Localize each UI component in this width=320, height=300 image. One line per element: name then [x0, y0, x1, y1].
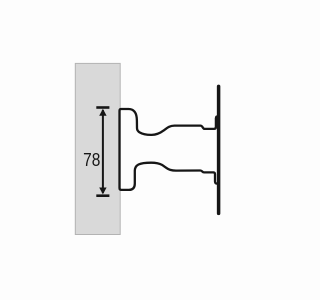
dimension top tick — [96, 106, 109, 109]
dimension top arrowhead — [99, 109, 106, 116]
display plate bar — [217, 86, 221, 213]
mount body outline — [120, 109, 219, 190]
dimension bottom tick — [96, 194, 109, 197]
dimension bottom arrowhead — [99, 188, 106, 195]
dimension line — [102, 110, 104, 193]
svg-text:78: 78 — [83, 149, 100, 170]
wall (grey panel) — [75, 63, 120, 234]
